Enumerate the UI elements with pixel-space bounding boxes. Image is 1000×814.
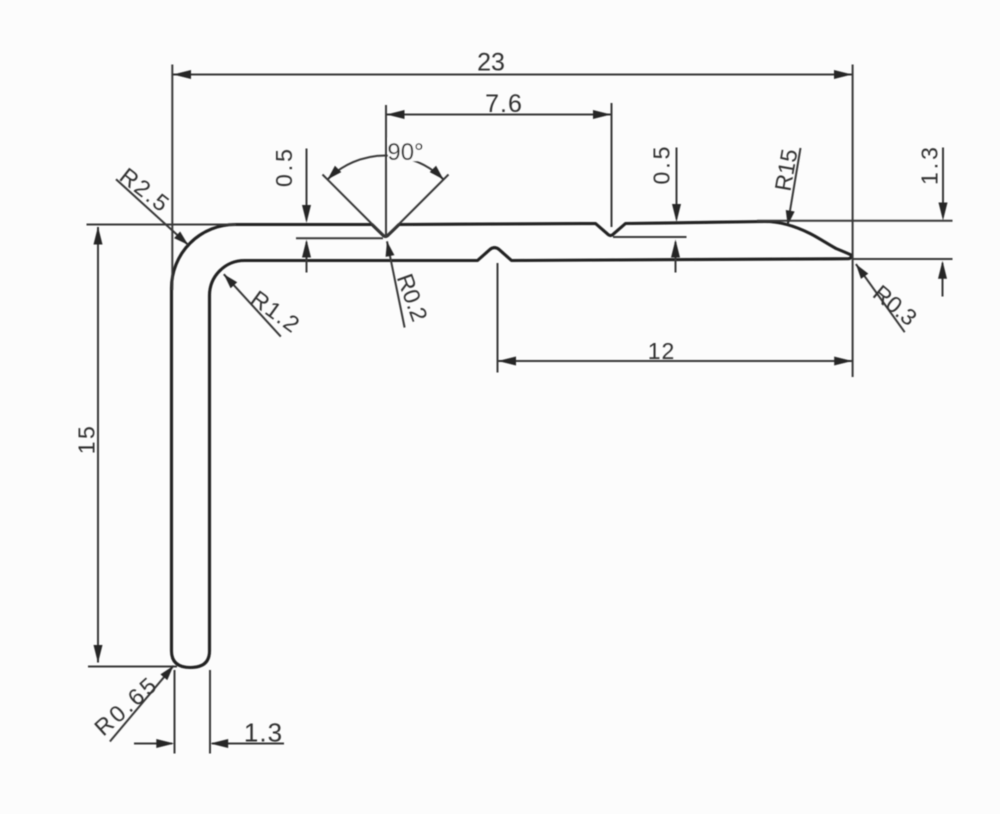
dimension 7.6: dimension line [386,114,612,116]
dimension 0.5 right: upper leader line [676,148,678,220]
dimension 7.6: right extension line [611,103,613,227]
dimension 15: bottom extension line [88,666,177,668]
svg-text:0.5: 0.5 [649,144,675,185]
dimension 0.5 left: upper arrowhead (down) [302,205,311,223]
dimension 1.3 right: lower leader line [942,263,944,297]
radius R2.5: arrowhead [174,231,191,248]
dimension 1.3 bottom: right dimension line [212,743,284,745]
svg-text:15: 15 [74,424,100,455]
svg-text:R0.3: R0.3 [868,280,922,331]
radius R0.65: arrowhead [160,663,177,680]
dimension 7.6: left arrowhead [387,110,405,119]
radius R0.3: arrowhead [852,261,868,278]
angle 90deg: right flank construction line [386,175,449,238]
dimension 7.6: left extension line [385,105,387,236]
dimension 0.5 left: lower arrowhead (up) [302,240,311,258]
radius R0.2: arrowhead [383,240,395,256]
angle 90deg: left flank construction line [323,175,386,238]
angle 90deg: left arc arrowhead [324,166,341,183]
dimension 23: dimension line [172,74,852,76]
svg-text:R0.65: R0.65 [89,670,163,740]
dimension 23: right arrowhead [834,70,852,79]
svg-text:R15: R15 [770,147,803,193]
radius R1.2: arrowhead [220,271,237,288]
dimension 7.6: right arrowhead [593,110,611,119]
dimension 0.5 left: upper leader line [306,149,308,221]
dimension 23: left extension line [171,65,173,291]
dimension 1.3 right: upper arrowhead (down) [939,203,948,221]
dimension 1.3 bottom: left arrowhead (right) [156,739,174,748]
dimension 1.3 bottom: left dimension line [134,743,172,745]
dimension 23: right extension line [852,65,854,378]
dimension 1.3 bottom: left extension line [174,670,176,754]
dimension 1.3 bottom: right extension line [209,670,211,754]
radius R15: arrowhead [783,210,794,226]
dimension 12: right arrowhead [834,357,852,366]
dimension 1.3 right: upper leader line [942,148,944,218]
dimension 15: bottom arrowhead (down) [94,645,103,663]
radius R1.2: leader line [224,274,281,336]
dimension 15: dimension line [97,227,99,663]
svg-text:1.3: 1.3 [917,144,943,185]
dimension 1.3 right: lower extension line [853,258,953,260]
radius R0.3: leader line [856,264,905,332]
dimension 1.3 right: upper extension line [757,220,953,222]
dimension 12: left extension line [497,263,499,373]
svg-text:12: 12 [648,338,676,364]
radius R0.65: leader line [110,666,174,742]
dimension 15: top arrowhead (up) [94,227,103,245]
dimension 1.3 bottom: right arrowhead (left) [210,739,228,748]
dimension 0.5 right: vertex-level extension line [613,236,687,238]
dimension 23: left arrowhead [173,70,191,79]
svg-text:7.6: 7.6 [485,90,523,118]
svg-text:23: 23 [477,49,505,77]
angle 90deg: label background [388,138,420,161]
radius R15: leader line [788,148,801,225]
svg-text:0.5: 0.5 [271,146,297,187]
dimension 12: left arrowhead [498,357,516,366]
dimension 0.5 left: vertex-level extension line [296,237,383,239]
radius R2.5: leader line [116,179,188,245]
dimension 12: dimension line [498,360,853,362]
dimension 0.5 right: upper arrowhead (down) [672,204,681,222]
dimension 15: top extension line [87,224,237,226]
angle 90deg: right arc arrowhead [430,166,447,183]
radius R0.2: leader line [387,241,405,327]
svg-text:R2.5: R2.5 [115,162,176,217]
dimension 0.5 right: lower arrowhead (up) [671,240,680,258]
dimension 1.3 right: lower arrowhead (up) [938,261,947,279]
angle 90deg: arc [328,155,444,179]
dimension 0.5 left: lower leader line [306,242,308,273]
profile outline [172,222,852,668]
dimension 0.5 right: lower leader line [675,242,677,273]
svg-text:1.3: 1.3 [244,718,283,748]
svg-text:90°: 90° [387,139,423,166]
